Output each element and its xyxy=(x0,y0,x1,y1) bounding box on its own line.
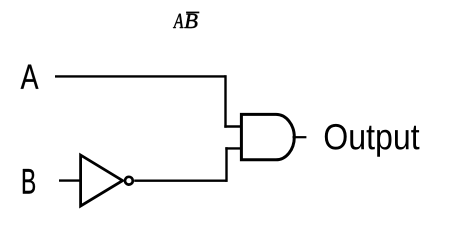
output label "Output" xyxy=(325,124,420,157)
wire: A into AND gate top input xyxy=(224,125,242,127)
wire: B into AND gate bottom input xyxy=(225,147,242,149)
wire: AND gate output stub xyxy=(293,136,307,138)
inverter U1 (NOT gate) triangle xyxy=(81,155,123,206)
wire: A vertical drop xyxy=(224,75,226,128)
wire: B vertical rise xyxy=(225,147,227,182)
wire: inverter output horizontal xyxy=(134,179,226,181)
AND gate U2 body xyxy=(241,114,294,159)
input label A xyxy=(21,65,39,89)
wire: B into inverter xyxy=(59,179,81,181)
net label: overline bar over B xyxy=(186,12,199,14)
inverter U1 bubble xyxy=(125,177,133,185)
net label: expression B (italic) xyxy=(184,14,197,28)
input label B xyxy=(23,169,35,194)
wire: A input horizontal xyxy=(55,75,226,77)
net label: expression A (italic) xyxy=(173,14,183,28)
